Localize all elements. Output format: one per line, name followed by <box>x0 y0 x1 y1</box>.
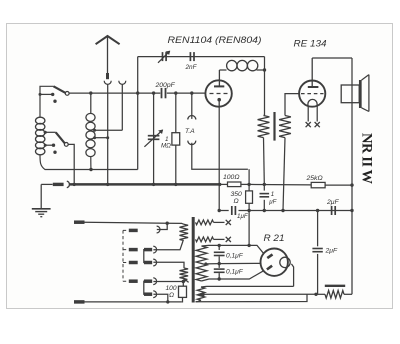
T2 rectifier filament winding <box>197 287 205 300</box>
svg-text:200pF: 200pF <box>155 82 176 89</box>
antenna socket cup 2 <box>119 81 126 85</box>
selector wire B4 <box>153 294 167 302</box>
transformer T2 core <box>192 217 195 303</box>
wire cap chain mid <box>218 256 220 268</box>
wire V2 anode to speaker <box>312 57 352 59</box>
switch S1 arm <box>54 86 67 93</box>
resistor 100ohm mains <box>179 286 187 297</box>
T2 filament row 2 <box>196 237 214 242</box>
border frame <box>7 24 393 309</box>
svg-text:25kΩ: 25kΩ <box>306 175 323 182</box>
wire HT top line <box>219 244 249 246</box>
capacitor 2uF coupling <box>331 206 333 215</box>
svg-text:REN1104 (REN804): REN1104 (REN804) <box>168 34 262 45</box>
tube V1 envelope <box>205 80 231 106</box>
selector wire B3 <box>153 281 183 283</box>
svg-text:MΩ: MΩ <box>161 143 171 150</box>
speaker <box>351 58 353 103</box>
grid bus right segment <box>167 92 206 94</box>
svg-text:Ω: Ω <box>234 198 239 205</box>
tube V1 anode <box>214 85 224 87</box>
x mark row 1 <box>226 220 231 225</box>
wire varcap vertical <box>153 93 155 184</box>
tube V2 envelope <box>299 81 325 107</box>
transformer T1 core <box>273 112 275 141</box>
wire center tap to R21 <box>219 262 261 264</box>
node coil-bottom line <box>46 169 138 171</box>
wire B+ line <box>249 183 311 186</box>
svg-text:R 21: R 21 <box>264 233 285 243</box>
wire R21 output to fil winding <box>207 285 294 287</box>
jack TA upper <box>188 116 196 120</box>
resistor 100ohm cathode <box>220 183 228 185</box>
coil L1 <box>36 117 45 124</box>
svg-text:1μF: 1μF <box>237 213 249 220</box>
tube V2 filament leads <box>307 106 309 121</box>
svg-text:350: 350 <box>231 191 243 198</box>
selector pair B1 <box>144 248 152 252</box>
grid bus left segment <box>69 92 160 94</box>
antenna plug <box>106 73 109 79</box>
jack TA lower <box>188 141 196 145</box>
selector plug A1 <box>129 248 138 252</box>
wire tuned vertical <box>137 57 139 170</box>
tube V1 cathode <box>217 98 221 102</box>
wire cap chain bottom <box>218 273 220 279</box>
speaker field resistor bar <box>325 285 345 287</box>
wire 1Mohm vertical <box>175 93 177 184</box>
switch S2 tap stub <box>45 131 56 133</box>
resistor 1Mohm <box>172 133 180 145</box>
svg-text:100Ω: 100Ω <box>223 174 240 181</box>
selector pair B4 <box>144 292 152 296</box>
wire TA vertical top <box>191 93 193 119</box>
R21 anode bar 1 <box>267 254 272 258</box>
wire fil bottom loop <box>196 294 308 302</box>
svg-text:1: 1 <box>271 191 274 198</box>
x mark row 2 <box>226 237 231 242</box>
selector pair B3 <box>144 279 152 283</box>
resistor dropper 1 <box>182 222 184 225</box>
mains plug upper <box>74 220 85 224</box>
capacitor 0.1uF lower <box>214 268 225 270</box>
coil L2 tap 1 <box>95 129 123 131</box>
wire T1 secondary top to V2 grid <box>285 94 299 116</box>
tube V2 filament x marks <box>306 122 311 127</box>
trimmer capacitor <box>162 52 164 61</box>
wire TA to cathode node <box>192 143 248 169</box>
T2 HT top wire <box>202 244 220 247</box>
wire tap to 100ohm <box>182 282 184 287</box>
wire HT bottom to R21 anode2 <box>219 269 266 279</box>
selector socket row0 <box>157 226 160 233</box>
wire coil L1 top <box>40 86 54 117</box>
wire regen line <box>138 56 265 58</box>
R21 cathode bubble <box>280 257 290 267</box>
wire cathode vertical <box>218 107 220 185</box>
T2 rect fil bottom wire <box>196 300 202 302</box>
wire T1 primary bottom <box>263 138 266 185</box>
anode coil <box>219 69 226 71</box>
mains plug lower <box>74 300 85 304</box>
wire speaker down rail <box>351 103 353 294</box>
capacitor 1uF series <box>219 210 229 212</box>
antenna socket cup 1 <box>104 81 111 85</box>
T2 HT center tap <box>206 263 220 265</box>
R21 anode bar 2 <box>267 266 272 270</box>
switch S1 pole stub <box>40 93 53 95</box>
dropper tap arrow <box>184 279 188 283</box>
mains wire lower <box>85 301 182 303</box>
rectifier R21 envelope <box>261 249 288 276</box>
capacitor 1uF shunt <box>263 184 265 190</box>
selector plug A3 <box>129 279 138 283</box>
selector wire B1 <box>153 241 183 250</box>
capacitor 2nF <box>189 52 191 61</box>
resistor 350ohm <box>248 169 250 191</box>
coil L1 bottom wire <box>40 155 46 170</box>
tube V1 grid <box>210 93 230 95</box>
capacitor 2uF shunt <box>317 211 319 247</box>
svg-text:T.A: T.A <box>185 128 195 135</box>
svg-text:0,1μF: 0,1μF <box>226 268 244 275</box>
selector dashed cable <box>123 230 129 281</box>
wire regen corner to transformer <box>264 57 266 116</box>
transformer T1 secondary <box>279 116 291 138</box>
T2 HT winding <box>196 246 207 281</box>
svg-text:2nF: 2nF <box>185 64 198 71</box>
wire cap chain <box>218 245 220 250</box>
resistor speaker zigzag <box>316 293 325 295</box>
svg-text:RE 134: RE 134 <box>294 39 327 49</box>
switch S2 arm <box>56 132 66 144</box>
fil tap arrow <box>204 293 211 295</box>
ground symbol <box>40 184 42 208</box>
svg-text:μF: μF <box>268 198 277 205</box>
T2 filament row 1 <box>196 220 214 225</box>
resistor dropper 2 <box>180 268 189 279</box>
middle line 210 <box>249 210 352 212</box>
capacitor 200pF <box>161 88 163 98</box>
ground socket <box>67 181 70 188</box>
selector plug A0 <box>129 229 138 233</box>
svg-text:2μF: 2μF <box>326 199 340 206</box>
selector link B1-B2 <box>143 250 145 263</box>
wire cathode to 210 line <box>218 184 220 210</box>
switch S2 contact <box>64 143 68 147</box>
coil L2 top wire <box>90 93 92 113</box>
tube V2 filament <box>308 99 317 106</box>
selector wire B2 <box>153 262 184 268</box>
transformer T1 primary <box>258 116 270 138</box>
coil L2 bottom wire <box>90 157 92 170</box>
tube V2 anode <box>308 86 319 88</box>
T2 HT bottom wire <box>202 279 220 281</box>
selector pair B2 <box>144 261 152 265</box>
resistor 25kohm <box>311 182 325 187</box>
antenna <box>96 36 120 44</box>
wire 350 to R21 anode1 <box>249 211 267 258</box>
ground plug <box>41 183 52 185</box>
wire R21 output <box>291 264 293 287</box>
wire S2 to ground bus <box>68 144 74 184</box>
T2 rect fil top wire <box>201 285 207 288</box>
wire T1 secondary bottom <box>283 138 285 211</box>
wire cup1 to ground bus <box>107 138 109 185</box>
tube V2 grid <box>301 93 324 95</box>
wire 100ohm to mains lower <box>181 297 184 302</box>
selector link B3-B4 <box>143 281 145 294</box>
chassis bus <box>69 183 219 186</box>
selector plug A2 <box>129 261 138 265</box>
svg-text:2μF: 2μF <box>325 248 339 255</box>
wire fil tap line <box>210 293 316 295</box>
mains wire upper <box>85 222 183 223</box>
svg-text:Ω: Ω <box>169 292 174 299</box>
capacitor 0.1uF upper <box>214 251 225 253</box>
coil L2 <box>86 113 95 121</box>
switch S2 contact dots <box>45 144 53 146</box>
svg-text:0,1μF: 0,1μF <box>226 252 244 259</box>
svg-text:NR II W: NR II W <box>359 133 375 185</box>
switch S1 contact <box>65 92 69 96</box>
coil L2 tap 2 <box>95 137 108 139</box>
variable capacitor <box>148 135 160 137</box>
switch S1 spare contact <box>53 100 56 103</box>
